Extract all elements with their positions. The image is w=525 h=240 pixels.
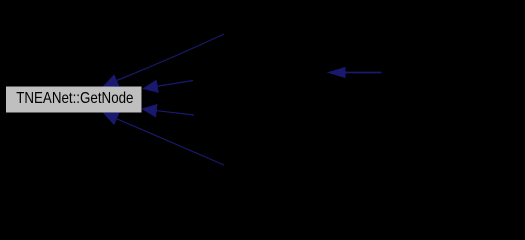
svg-text:TNEANet::GetNode: TNEANet::GetNode xyxy=(16,90,133,107)
